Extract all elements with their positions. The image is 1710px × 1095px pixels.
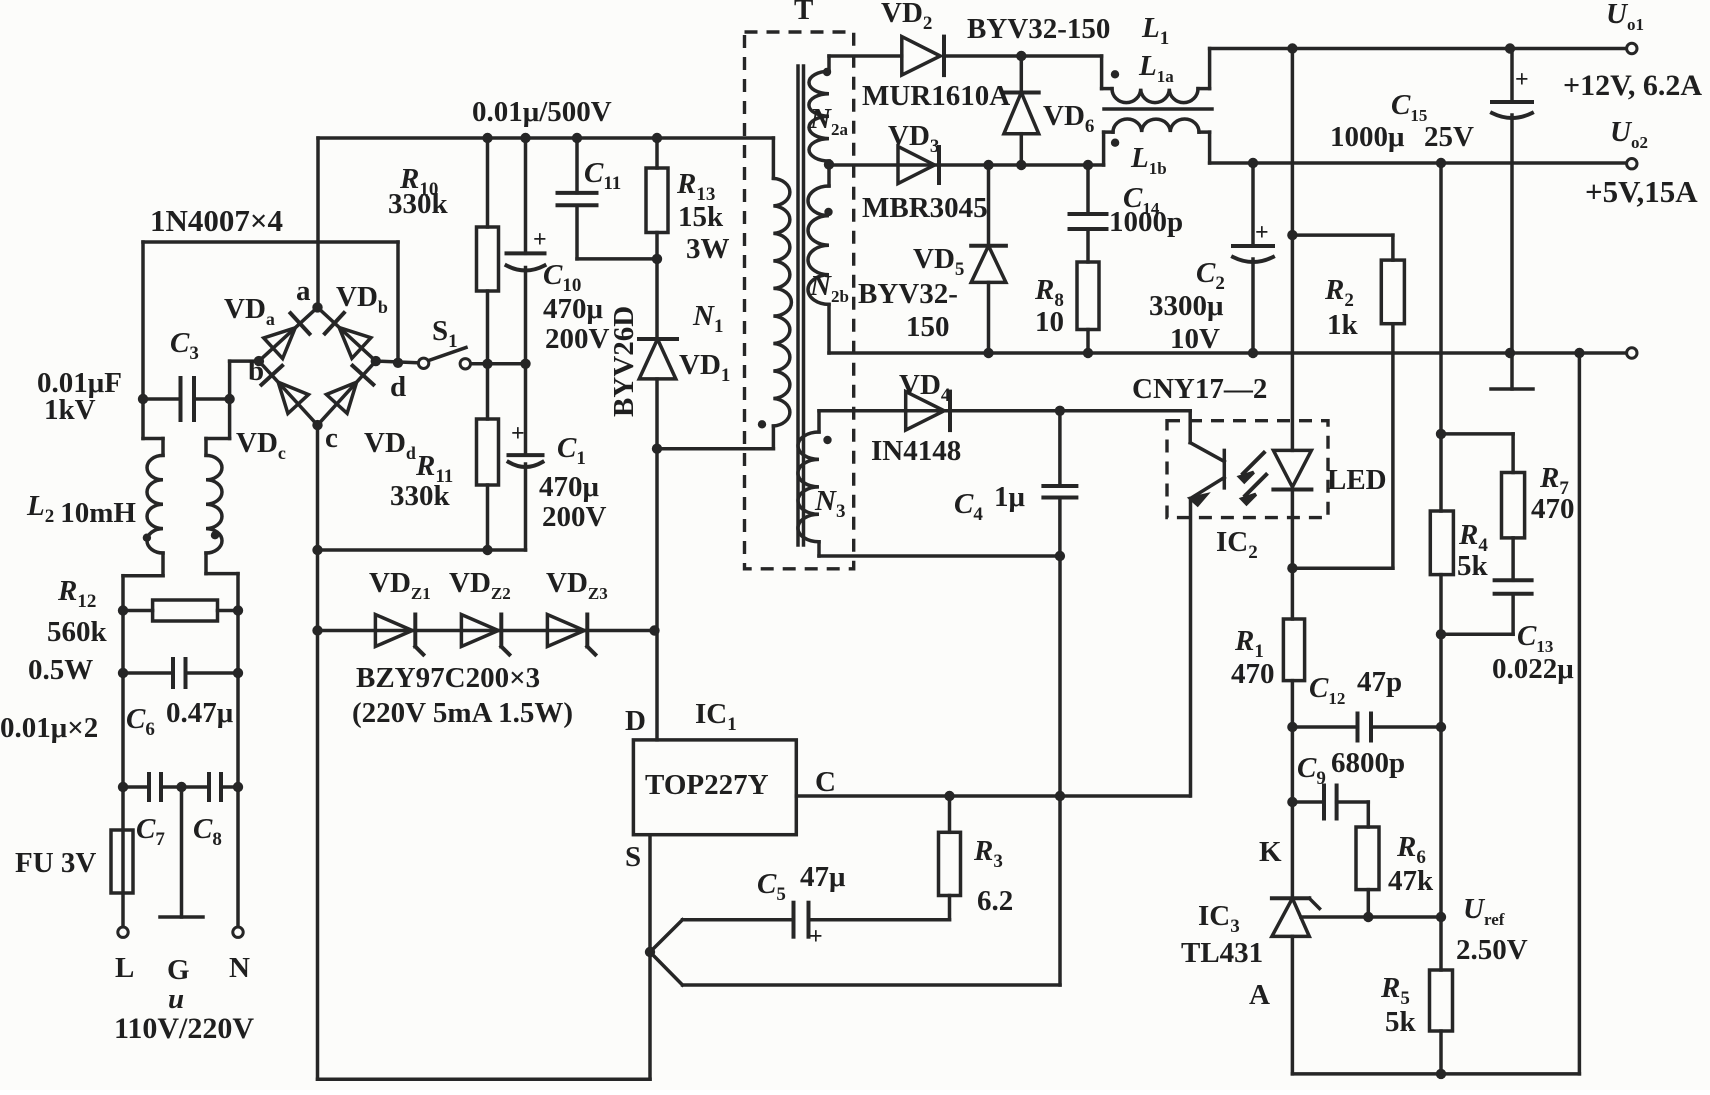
- svg-text:u: u: [168, 983, 184, 1015]
- svg-text:47μ: 47μ: [800, 861, 846, 893]
- svg-text:200V: 200V: [542, 501, 607, 533]
- svg-text:d: d: [390, 371, 406, 403]
- svg-text:IN4148: IN4148: [871, 435, 961, 467]
- svg-text:0.47μ: 0.47μ: [166, 697, 234, 729]
- svg-text:MUR1610A: MUR1610A: [862, 80, 1010, 112]
- svg-text:+: +: [809, 924, 823, 950]
- svg-text:1kV: 1kV: [44, 394, 96, 426]
- svg-text:10V: 10V: [1170, 323, 1220, 355]
- svg-text:TL431: TL431: [1181, 937, 1263, 969]
- svg-text:D: D: [625, 705, 646, 737]
- svg-text:1N4007×4: 1N4007×4: [150, 203, 283, 238]
- svg-text:+: +: [1255, 220, 1269, 246]
- svg-text:LED: LED: [1327, 464, 1387, 496]
- svg-text:BYV32-150: BYV32-150: [967, 13, 1110, 45]
- svg-text:6800p: 6800p: [1331, 747, 1405, 779]
- svg-text:+5V,15A: +5V,15A: [1585, 174, 1698, 209]
- svg-text:330k: 330k: [390, 480, 451, 512]
- svg-text:1000p: 1000p: [1109, 206, 1183, 238]
- svg-text:G: G: [167, 954, 190, 986]
- svg-text:BYV32-: BYV32-: [858, 278, 958, 310]
- svg-text:0.5W: 0.5W: [28, 654, 93, 686]
- svg-text:+: +: [511, 421, 525, 447]
- svg-text:a: a: [296, 275, 311, 307]
- svg-text:47k: 47k: [1388, 865, 1434, 897]
- svg-text:C: C: [815, 766, 836, 798]
- svg-text:5k: 5k: [1385, 1006, 1417, 1038]
- svg-text:5k: 5k: [1457, 550, 1489, 582]
- svg-text:1k: 1k: [1327, 309, 1359, 341]
- svg-text:470μ: 470μ: [539, 471, 600, 503]
- svg-text:+12V, 6.2A: +12V, 6.2A: [1563, 69, 1702, 102]
- svg-text:2.50V: 2.50V: [1456, 934, 1528, 966]
- svg-text:c: c: [325, 422, 338, 454]
- svg-text:L: L: [115, 952, 134, 984]
- svg-text:0.01μ×2: 0.01μ×2: [0, 712, 98, 744]
- svg-text:(220V 5mA 1.5W): (220V 5mA 1.5W): [352, 697, 573, 729]
- svg-text:BZY97C200×3: BZY97C200×3: [356, 662, 540, 694]
- svg-text:110V/220V: 110V/220V: [114, 1012, 254, 1045]
- svg-text:15k: 15k: [678, 201, 724, 233]
- svg-text:6.2: 6.2: [977, 885, 1013, 917]
- svg-text:FU 3V: FU 3V: [15, 847, 96, 879]
- svg-text:10: 10: [1035, 306, 1064, 338]
- svg-text:A: A: [1249, 979, 1270, 1011]
- svg-text:+: +: [533, 227, 547, 253]
- svg-text:3W: 3W: [686, 233, 730, 265]
- svg-text:3300μ: 3300μ: [1149, 290, 1224, 322]
- svg-text:1000μ: 1000μ: [1330, 121, 1405, 153]
- svg-text:S: S: [625, 841, 641, 873]
- svg-text:470: 470: [1231, 658, 1275, 690]
- svg-text:CNY17—2: CNY17—2: [1132, 373, 1267, 405]
- svg-text:K: K: [1259, 836, 1282, 868]
- svg-text:330k: 330k: [388, 188, 449, 220]
- svg-text:+: +: [1515, 67, 1529, 93]
- svg-text:150: 150: [906, 311, 950, 343]
- svg-text:0.022μ: 0.022μ: [1492, 653, 1574, 685]
- svg-text:560k: 560k: [47, 616, 108, 648]
- svg-text:1μ: 1μ: [994, 481, 1026, 513]
- svg-text:MBR3045: MBR3045: [862, 192, 988, 224]
- svg-text:b: b: [248, 355, 264, 387]
- svg-text:TOP227Y: TOP227Y: [645, 769, 769, 801]
- svg-text:N: N: [229, 952, 250, 984]
- svg-text:47p: 47p: [1357, 666, 1402, 698]
- svg-text:470: 470: [1531, 493, 1575, 525]
- svg-text:470μ: 470μ: [543, 293, 604, 325]
- svg-text:T: T: [794, 0, 813, 26]
- svg-text:0.01μ/500V: 0.01μ/500V: [472, 96, 612, 128]
- svg-text:BYV26D: BYV26D: [608, 306, 640, 417]
- svg-text:25V: 25V: [1424, 121, 1474, 153]
- svg-text:200V: 200V: [545, 323, 610, 355]
